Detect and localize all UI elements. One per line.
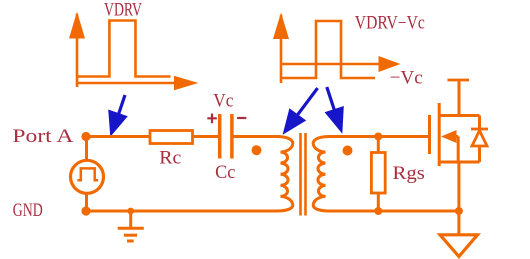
transistor Q1 drain lead	[458, 80, 461, 116]
ground symbol bar 3	[127, 240, 134, 243]
wire: secondary top to gate	[328, 135, 428, 138]
transistor Q1 channel bar	[438, 103, 441, 166]
svg-text:Vc: Vc	[213, 91, 233, 112]
node Rgs top junction dot	[374, 133, 382, 141]
waveform plot VDRV: vertical axis	[76, 14, 79, 87]
wire: secondary bottom rail	[328, 210, 459, 213]
wire: bottom rail GND to transformer primary	[86, 210, 277, 213]
capacitor Cc: left plate	[218, 114, 222, 159]
waveform plot VDRV: pulse trace	[77, 21, 171, 77]
svg-text:VDRV: VDRV	[104, 1, 142, 21]
transformer T1 primary winding	[276, 137, 293, 212]
body diode triangle	[472, 131, 487, 147]
annotation arrow (blue) to Port A wire	[108, 95, 128, 137]
waveform plot VDRV: vertical axis arrowhead	[69, 12, 85, 39]
waveform plot VDRV: horizontal axis	[77, 82, 178, 85]
transformer T1 primary polarity dot	[252, 145, 262, 155]
waveform plot VDRV-Vc: vertical axis	[280, 15, 283, 83]
resistor Rgs	[371, 153, 385, 194]
resistor Rgs leads	[377, 137, 380, 212]
waveform plot VDRV-Vc: pulse trace	[281, 21, 375, 78]
transformer T1 core line left	[299, 133, 302, 216]
node source junction dot	[455, 207, 463, 215]
pulse source V1: circle	[71, 160, 104, 193]
node ground tap junction dot	[127, 208, 134, 215]
transistor Q1 drain edge	[439, 114, 479, 117]
resistor Rc	[150, 131, 193, 144]
svg-text:GND: GND	[13, 200, 43, 221]
svg-text:−Vc: −Vc	[390, 68, 423, 89]
wire: top rail Port A to Rc	[86, 135, 150, 138]
polarity minus sign	[237, 117, 246, 119]
annotation arrow (blue) to transformer primary	[283, 88, 318, 135]
annotation arrow (blue) to transformer secondary	[325, 87, 344, 134]
svg-text:Port A: Port A	[12, 126, 73, 147]
drain terminal T-bar	[448, 79, 470, 82]
polarity plus sign	[207, 114, 217, 124]
waveform plot VDRV: horizontal axis arrowhead	[174, 76, 198, 91]
transformer T1 core line right	[304, 133, 307, 216]
transformer T1 secondary winding	[313, 137, 330, 212]
body diode branch upper	[478, 116, 481, 130]
transistor Q1 source edge	[439, 161, 479, 164]
ground symbol bar 2	[124, 234, 137, 237]
ground symbol bar 1	[118, 227, 144, 230]
waveform plot VDRV-Vc: horizontal axis	[281, 63, 382, 66]
waveform plot VDRV-Vc: horizontal axis arrowhead	[379, 56, 401, 72]
wire: source down to ground	[457, 162, 460, 235]
body diode branch lower	[478, 146, 481, 162]
node GND junction dot	[81, 206, 90, 215]
transformer T1 secondary polarity dot	[343, 146, 353, 156]
wire: Rc to capacitor Cc	[193, 135, 219, 138]
node Port A junction dot	[81, 132, 90, 141]
waveform plot VDRV-Vc: vertical axis arrowhead	[273, 13, 289, 40]
svg-text:VDRV−Vc: VDRV−Vc	[355, 14, 425, 34]
node Rgs bottom junction dot	[374, 207, 382, 215]
wire: capacitor Cc to transformer primary	[234, 135, 280, 138]
pulse source V1: pulse glyph	[77, 168, 98, 180]
transistor Q1 source inner wire	[455, 137, 458, 163]
pulse source V1: connecting wires	[85, 137, 88, 212]
ground symbol (triangle)	[440, 235, 478, 257]
body diode cathode bar	[471, 128, 488, 131]
svg-text:Rgs: Rgs	[393, 163, 425, 184]
capacitor Cc: right plate	[230, 114, 234, 159]
svg-text:Cc: Cc	[215, 162, 235, 183]
ground symbol (bars) stem	[129, 211, 132, 227]
svg-text:Rc: Rc	[159, 148, 181, 169]
transistor Q1 gate bar	[428, 115, 431, 154]
transistor Q1 substrate arrow	[441, 130, 457, 143]
